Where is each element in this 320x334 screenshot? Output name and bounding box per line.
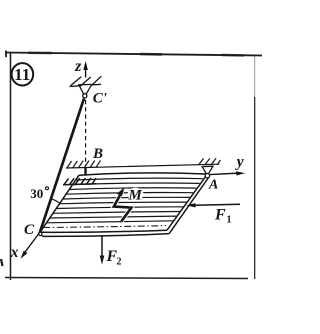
pivot circle at corner C bbox=[39, 232, 42, 235]
plate thickness left cap bbox=[40, 232, 43, 236]
ceiling line spanning supports B and A bbox=[66, 164, 219, 168]
moment M zigzag arrow bbox=[114, 187, 144, 221]
svg-text:x: x bbox=[10, 244, 19, 261]
support A: wall hatching bbox=[199, 158, 221, 165]
y axis bbox=[210, 154, 245, 176]
svg-text:11: 11 bbox=[14, 65, 30, 84]
support C' (ceiling mount): hatching bbox=[70, 76, 102, 86]
plate outline bbox=[40, 173, 206, 232]
svg-text:M: M bbox=[128, 188, 143, 204]
dashed vertical line C' to B bbox=[85, 100, 87, 166]
force F2 arrow bbox=[100, 237, 122, 268]
svg-text:2: 2 bbox=[117, 257, 122, 268]
support B link to plate corner bbox=[84, 168, 86, 176]
svg-text:z: z bbox=[74, 58, 82, 75]
svg-text:C': C' bbox=[93, 91, 107, 107]
rod C'C bbox=[40, 99, 84, 233]
plate dash-dot line near bottom edge bbox=[43, 226, 166, 228]
svg-text:y: y bbox=[235, 154, 244, 171]
support B: wall hatching bbox=[67, 160, 101, 168]
svg-text:30: 30 bbox=[30, 186, 43, 201]
plate thickness bottom edge bbox=[43, 234, 170, 237]
x axis from C bbox=[10, 232, 40, 261]
angle arc 30 deg at C bbox=[51, 199, 60, 204]
support C' triangle bbox=[78, 84, 92, 94]
svg-text:C: C bbox=[24, 222, 35, 238]
pivot circle A bbox=[205, 174, 209, 178]
problem number badge 11 bbox=[12, 63, 34, 85]
svg-text:A: A bbox=[208, 178, 218, 193]
svg-text:F: F bbox=[214, 207, 226, 224]
pivot circle C' bbox=[83, 94, 87, 98]
z axis bbox=[74, 58, 88, 78]
plate thickness right edge bbox=[169, 178, 208, 234]
force F1 arrow bbox=[186, 203, 240, 225]
svg-text:B: B bbox=[92, 146, 103, 162]
page border frame (decorative) bbox=[1, 51, 262, 281]
support A triangle bbox=[202, 166, 214, 174]
svg-text:1: 1 bbox=[227, 215, 232, 226]
plate surface hatch lines bbox=[47, 178, 203, 223]
support B: lower hatching under plate corner bbox=[63, 178, 97, 185]
